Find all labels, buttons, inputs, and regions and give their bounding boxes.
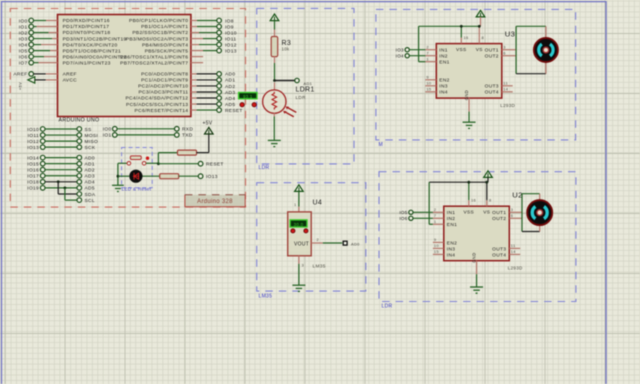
resistor R2: [160, 174, 179, 179]
svg-text:IO10: IO10: [27, 127, 39, 133]
wire VSS rail: [429, 181, 487, 183]
svg-text:6: 6: [511, 213, 513, 218]
svg-text:PC5/ADC5/SCL/PCINT13: PC5/ADC5/SCL/PCINT13: [126, 102, 188, 108]
svg-text:30.0: 30.0: [294, 222, 304, 227]
svg-text:GND: GND: [472, 253, 477, 263]
svg-text:AD3: AD3: [85, 174, 95, 180]
ground: [268, 140, 281, 146]
pin PD0: [46, 20, 58, 22]
wire: [34, 50, 51, 52]
wire: [413, 211, 433, 213]
terminal IO12: [217, 42, 222, 47]
light arrows: [284, 107, 296, 117]
svg-text:IO0: IO0: [19, 18, 28, 24]
LDR1 photoresistor: [274, 83, 276, 91]
svg-text:OUT1: OUT1: [485, 48, 499, 54]
sensor U4 LM35 body: [288, 212, 312, 256]
wire: [468, 112, 470, 123]
svg-text:SCK: SCK: [85, 145, 96, 151]
terminal IO9: [217, 24, 222, 29]
svg-text:IN3: IN3: [439, 84, 447, 90]
Arduino U1 body: [58, 15, 191, 117]
pin PB2: [191, 32, 199, 34]
svg-text:6: 6: [503, 51, 505, 56]
wire: [197, 103, 217, 105]
svg-text:AD0: AD0: [351, 241, 360, 246]
pushbutton RESET: [127, 162, 131, 166]
svg-text:IO12: IO12: [225, 42, 237, 48]
wire: [34, 38, 53, 40]
svg-text:IO13: IO13: [27, 145, 39, 151]
wire: [409, 49, 425, 51]
wire: [197, 109, 217, 111]
terminal AD5: [217, 102, 222, 107]
svg-text:IO2: IO2: [19, 30, 28, 36]
svg-text:IO15: IO15: [27, 161, 39, 167]
svg-text:PD2/INT0/PCINT18: PD2/INT0/PCINT18: [63, 30, 111, 36]
ground: [470, 287, 483, 293]
svg-text:AD0: AD0: [85, 155, 95, 161]
pin 7 IN2: [425, 55, 436, 57]
pin 3 OUT1: [509, 211, 522, 213]
power +5V U2: [484, 171, 493, 178]
wire: [34, 32, 49, 34]
pin PC6: [191, 109, 197, 111]
svg-text:IN2: IN2: [439, 54, 447, 60]
pin 1 EN1: [433, 223, 444, 225]
svg-text:IO3: IO3: [19, 36, 28, 42]
pin 14 OUT4 (n/c): [502, 91, 513, 93]
terminal IO13: [217, 48, 222, 53]
svg-text:PB3/MOSI/OC2A/PCINT3: PB3/MOSI/OC2A/PCINT3: [126, 36, 189, 42]
pin GND: [468, 98, 470, 112]
svg-text:PD1/TXD/PCINT17: PD1/TXD/PCINT17: [63, 24, 110, 30]
pin 1: [298, 207, 300, 212]
pin 8 VS: [478, 38, 480, 44]
svg-text:PB2/SS/OC1B/PCINT2: PB2/SS/OC1B/PCINT2: [132, 30, 188, 36]
svg-text:IO4: IO4: [396, 54, 404, 59]
junction: [485, 181, 488, 184]
svg-text:11: 11: [503, 81, 508, 86]
pin PB1: [191, 26, 197, 28]
svg-text:U3: U3: [505, 29, 515, 38]
wire: [158, 163, 198, 165]
terminal AD1: [77, 161, 82, 166]
svg-text:IO6: IO6: [399, 216, 407, 221]
terminal IO11: [217, 36, 222, 41]
wire: [64, 188, 66, 200]
svg-text:3: 3: [503, 45, 505, 50]
power +5V: [270, 14, 279, 21]
junction: [117, 175, 120, 178]
svg-text:OUT1: OUT1: [492, 210, 506, 216]
svg-text:EN2: EN2: [439, 78, 449, 84]
terminal AD4: [77, 180, 82, 185]
pin PC3: [191, 91, 197, 93]
wire: [118, 162, 127, 164]
svg-text:PB4/MISO/PCINT4: PB4/MISO/PCINT4: [142, 42, 188, 48]
svg-text:IO18: IO18: [27, 180, 39, 186]
pin PC5: [191, 103, 197, 105]
svg-text:MOSI: MOSI: [85, 133, 99, 139]
pin PC2: [191, 85, 197, 87]
svg-text:AD4: AD4: [85, 180, 95, 186]
pin 10 IN3 (n/c): [433, 247, 444, 249]
pin PD7: [39, 62, 58, 64]
svg-text:LDR: LDR: [296, 95, 307, 100]
wire: [197, 79, 217, 81]
svg-text:OUT3: OUT3: [492, 246, 506, 252]
pin 11 OUT3 (n/c): [502, 85, 513, 87]
pin 6 OUT2: [509, 217, 522, 219]
pin AREF: [46, 73, 58, 75]
ground: [292, 285, 305, 291]
svg-text:IO11: IO11: [225, 36, 236, 42]
svg-text:PD4/T0/XCK/PCINT20: PD4/T0/XCK/PCINT20: [63, 42, 118, 48]
motor U2M: [527, 200, 552, 225]
terminal AD4: [217, 96, 222, 101]
label box Arduino 328: [185, 195, 245, 207]
svg-text:IO13: IO13: [225, 48, 237, 54]
terminal TXD: [175, 133, 180, 138]
svg-text:RESET: RESET: [225, 108, 243, 114]
svg-text:LM35: LM35: [259, 294, 273, 300]
LDR1 adjust buttons: [240, 103, 244, 107]
svg-text:8: 8: [482, 35, 484, 40]
wire motor loop bottom: [522, 231, 540, 233]
svg-text:PC4/ADC4/SDA/PCINT12: PC4/ADC4/SDA/PCINT12: [125, 96, 188, 102]
svg-text:10: 10: [434, 243, 439, 248]
pin PB0: [191, 20, 197, 22]
terminal AD3: [217, 90, 222, 95]
svg-text:IO9: IO9: [225, 24, 234, 30]
svg-text:PC6/RESET/PCINT14: PC6/RESET/PCINT14: [135, 108, 189, 114]
wire motor loop left: [515, 26, 517, 73]
svg-text:PD7/AIN1/PCINT23: PD7/AIN1/PCINT23: [63, 60, 111, 66]
pin 2 IN1: [433, 211, 444, 213]
svg-text:AD1: AD1: [225, 78, 235, 84]
terminal AD1: [295, 78, 299, 82]
terminal AD2: [77, 167, 82, 172]
svg-text:LDR1: LDR1: [296, 87, 315, 94]
wire: [34, 44, 42, 46]
svg-text:AD5: AD5: [225, 102, 235, 108]
svg-text:EN2: EN2: [447, 240, 457, 246]
svg-text:IN2: IN2: [447, 216, 455, 222]
svg-text:IO3: IO3: [396, 48, 404, 53]
terminal AD2: [217, 84, 222, 89]
pin PD2: [49, 32, 58, 34]
svg-text:PB5/SCK/PCINT5: PB5/SCK/PCINT5: [145, 48, 189, 54]
wire: [323, 242, 342, 244]
pin R3 top: [274, 30, 276, 38]
svg-text:PD0/RXD/PCINT16: PD0/RXD/PCINT16: [63, 18, 110, 24]
svg-text:IO19: IO19: [27, 186, 39, 192]
svg-text:1: 1: [434, 219, 436, 224]
wire: [45, 134, 77, 136]
pin motor top: [539, 194, 541, 202]
pin 16 VSS: [468, 200, 470, 206]
svg-text:IN3: IN3: [447, 246, 455, 252]
pin PB4: [191, 44, 199, 46]
pin PD4: [41, 44, 58, 46]
svg-text:MISO: MISO: [85, 139, 99, 145]
pin 6 OUT2: [502, 55, 516, 57]
wire: [428, 182, 430, 224]
svg-text:U4: U4: [313, 200, 323, 207]
svg-text:PD3/INT1/OC2B/PCINT19: PD3/INT1/OC2B/PCINT19: [63, 36, 127, 42]
svg-text:IO11: IO11: [28, 133, 39, 139]
svg-text:AD5: AD5: [85, 186, 95, 192]
svg-text:1: 1: [426, 57, 428, 62]
pin PC4: [191, 97, 197, 99]
terminal IO13: [198, 174, 203, 179]
op-amp driver U3 L293D body: [436, 44, 502, 99]
wire: [273, 117, 275, 141]
LM35 region (blue dashed): [257, 183, 366, 291]
terminal AD0: [77, 155, 82, 160]
motor LDR region (blue dashed): [379, 172, 576, 302]
wire: [197, 97, 217, 99]
svg-text:L293D: L293D: [500, 103, 515, 108]
pin 7 IN2: [433, 217, 444, 219]
junction: [157, 162, 160, 165]
wire: [157, 153, 159, 164]
terminal IO8: [217, 18, 222, 23]
wire: [480, 17, 482, 26]
ground: [112, 185, 124, 191]
pin motor bottom: [545, 60, 547, 74]
svg-text:IO1: IO1: [19, 24, 28, 30]
wire: [197, 73, 217, 75]
power +5V U3: [476, 10, 485, 17]
svg-text:16: 16: [464, 35, 469, 40]
svg-text:14: 14: [503, 87, 508, 92]
wire: [35, 79, 46, 81]
svg-text:14: 14: [511, 249, 516, 254]
svg-text:RXD: RXD: [182, 127, 193, 133]
LED D1: [129, 170, 142, 183]
pin PB3: [191, 38, 203, 40]
svg-text:IO5: IO5: [19, 48, 28, 54]
svg-text:IO14: IO14: [27, 155, 39, 161]
power +5V AVCC: [28, 77, 35, 83]
ground: [463, 122, 476, 128]
svg-text:IN1: IN1: [439, 48, 447, 54]
svg-text:VOUT: VOUT: [294, 242, 309, 248]
svg-text:OUT4: OUT4: [492, 252, 506, 258]
wire motor loop top: [522, 193, 540, 195]
svg-text:PC2/ADC2/PCINT10: PC2/ADC2/PCINT10: [138, 84, 188, 90]
svg-text:OUT2: OUT2: [492, 216, 506, 222]
pin motor bottom: [539, 223, 541, 231]
LDR sensor region (blue dashed): [257, 8, 354, 164]
pin 15 IN4 (n/c): [433, 253, 444, 255]
svg-text:AD4: AD4: [225, 96, 235, 102]
svg-text:93.1: 93.1: [243, 94, 253, 99]
svg-text:2: 2: [426, 45, 428, 50]
svg-text:IN4: IN4: [447, 252, 455, 258]
resistor R1: [178, 150, 197, 155]
pin 9 EN2 (n/c): [425, 79, 436, 81]
wire: [45, 187, 77, 189]
svg-text:2: 2: [434, 207, 436, 212]
LED & Reset selection box (blue dashed): [122, 148, 153, 188]
svg-text:PB0/CP1/CLKO/PCINT0: PB0/CP1/CLKO/PCINT0: [129, 18, 188, 24]
wire: [197, 152, 209, 154]
wire: [409, 55, 425, 57]
svg-text:U2: U2: [512, 191, 522, 200]
svg-text:GND: GND: [464, 90, 469, 100]
svg-text:M: M: [379, 142, 383, 148]
svg-text:LDR: LDR: [382, 304, 393, 310]
terminal RESET: [198, 161, 203, 166]
svg-text:7: 7: [434, 213, 436, 218]
wire: [45, 140, 77, 142]
terminal RESET: [217, 108, 222, 113]
wire: [45, 146, 77, 148]
wire: [179, 175, 199, 177]
svg-text:PC1/ADC1/PCINT9: PC1/ADC1/PCINT9: [141, 78, 188, 84]
wire motor loop top: [516, 25, 546, 27]
svg-text:IO16: IO16: [27, 168, 39, 174]
junction: [57, 180, 60, 183]
resistor R3: [271, 37, 278, 57]
pin PD5: [50, 50, 58, 52]
svg-text:LED & Reset: LED & Reset: [122, 187, 152, 192]
svg-text:IO17: IO17: [27, 174, 39, 180]
pin PD6: [44, 56, 58, 58]
svg-text:SS: SS: [85, 127, 93, 133]
pin PB6 (n/c): [191, 56, 203, 58]
LDR1 luminance display: [239, 93, 257, 99]
pin 15 IN4 (n/c): [425, 91, 436, 93]
svg-text:16: 16: [471, 198, 476, 203]
wire: [487, 177, 489, 182]
junction: [64, 187, 67, 190]
svg-text:IO13: IO13: [206, 174, 218, 180]
wire: [274, 21, 276, 30]
pin PC1: [191, 79, 197, 81]
power +5V U4: [295, 185, 304, 192]
svg-text:PB6/TOSC1/XTAL1/PCINT6: PB6/TOSC1/XTAL1/PCINT6: [120, 54, 188, 60]
terminal IO10: [217, 30, 222, 35]
svg-text:9: 9: [434, 237, 436, 242]
wire: [197, 20, 217, 22]
junction: [460, 25, 463, 28]
wire: [34, 20, 47, 22]
svg-text:3: 3: [302, 263, 304, 268]
wire: [143, 175, 160, 177]
svg-text:SDA: SDA: [85, 192, 96, 198]
wire: [197, 91, 217, 93]
svg-text:OUT3: OUT3: [485, 84, 499, 90]
pin PD1: [37, 26, 58, 28]
wire: [274, 63, 276, 81]
terminal AD5: [77, 186, 82, 191]
svg-text:AD3: AD3: [225, 90, 235, 96]
svg-text:AREF: AREF: [63, 72, 77, 78]
wire: [203, 50, 217, 52]
pin 9 EN2 (n/c): [433, 241, 444, 243]
wire: [34, 73, 46, 75]
svg-text:2: 2: [317, 237, 319, 242]
wire motor loop left: [521, 194, 523, 232]
svg-text:15: 15: [426, 87, 431, 92]
svg-text:AREF: AREF: [13, 72, 27, 78]
svg-text:IO5: IO5: [399, 210, 407, 215]
svg-text:IN1: IN1: [447, 210, 455, 216]
svg-text:VS: VS: [476, 47, 483, 53]
svg-text:11: 11: [511, 243, 516, 248]
svg-text:PB7/TOSC2/XTAL2/PCINT7: PB7/TOSC2/XTAL2/PCINT7: [120, 60, 188, 66]
wire: [45, 175, 77, 177]
svg-text:AVCC: AVCC: [63, 78, 78, 84]
wire: [197, 85, 217, 87]
svg-text:VSS: VSS: [456, 47, 467, 53]
motor M region (blue dashed): [376, 9, 576, 140]
terminal RXD: [175, 127, 180, 132]
svg-text:SCL: SCL: [85, 198, 95, 204]
wire: [118, 175, 129, 177]
svg-text:3: 3: [511, 207, 513, 212]
wire: [117, 128, 175, 130]
wire: [34, 26, 37, 28]
svg-text:AD1: AD1: [85, 161, 95, 167]
terminal SDA: [77, 192, 82, 197]
svg-text:PC3/ADC3/PCINT11: PC3/ADC3/PCINT11: [138, 90, 188, 96]
wire: [413, 217, 433, 219]
pin PB7 (n/c): [191, 62, 203, 64]
junction node AD1: [273, 79, 276, 82]
pin 3: [298, 256, 300, 264]
wire: [45, 163, 77, 165]
wire: [34, 56, 45, 58]
wire: [34, 62, 39, 64]
wire: [197, 26, 217, 28]
svg-text:IO12: IO12: [27, 139, 39, 145]
pin 1 EN1: [425, 61, 436, 63]
svg-text:PD6/AIN0/OC0A/PCINT22: PD6/AIN0/OC0A/PCINT22: [63, 54, 127, 60]
svg-text:IO8: IO8: [225, 18, 234, 24]
wire VSS rail: [419, 25, 480, 27]
svg-text:10: 10: [426, 81, 431, 86]
terminal AD0: [217, 72, 222, 77]
svg-text:IO1: IO1: [103, 133, 112, 139]
svg-text:8: 8: [489, 198, 491, 203]
svg-text:VSS: VSS: [464, 210, 475, 216]
wire: [199, 44, 217, 46]
svg-text:OUT4: OUT4: [485, 90, 499, 96]
svg-text:Arduino 328: Arduino 328: [197, 199, 233, 205]
svg-text:AD1: AD1: [304, 81, 313, 86]
Arduino subsystem region (red dashed): [10, 9, 245, 208]
pin GND: [476, 261, 478, 275]
svg-text:IO7: IO7: [19, 60, 28, 66]
pin PB5: [191, 50, 203, 52]
junction: [478, 25, 481, 28]
terminal SS: [77, 127, 82, 132]
svg-text:VS: VS: [483, 210, 490, 216]
wire: [199, 32, 217, 34]
svg-text:+5V: +5V: [18, 82, 23, 90]
svg-text:OUT2: OUT2: [485, 54, 499, 60]
terminal AD0: [343, 241, 347, 245]
pin 2 VOUT: [311, 242, 323, 244]
pin 16 VSS: [460, 38, 462, 44]
pin motor top: [545, 26, 547, 40]
svg-text:EN1: EN1: [439, 60, 449, 66]
